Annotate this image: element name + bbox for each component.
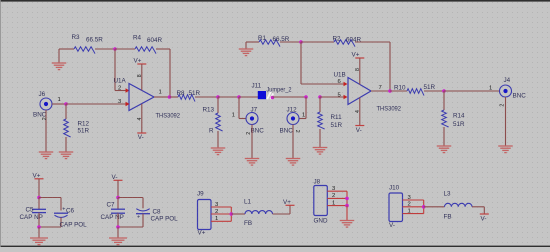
svg-text:R4: R4 — [133, 35, 142, 42]
svg-text:CAP NP: CAP NP — [101, 214, 124, 221]
svg-text:J7: J7 — [251, 107, 258, 114]
svg-text:4: 4 — [355, 110, 361, 113]
svg-text:1: 1 — [302, 113, 305, 119]
svg-text:51R: 51R — [424, 84, 436, 91]
svg-text:4: 4 — [137, 118, 143, 121]
svg-text:1: 1 — [215, 216, 218, 222]
svg-text:8: 8 — [137, 74, 143, 77]
svg-text:FB: FB — [444, 213, 452, 220]
svg-text:R: R — [209, 128, 214, 135]
svg-text:2: 2 — [332, 193, 335, 199]
svg-text:51R: 51R — [453, 121, 465, 128]
svg-text:V+: V+ — [198, 229, 206, 236]
svg-text:604R: 604R — [147, 37, 163, 44]
svg-text:7: 7 — [379, 85, 382, 91]
svg-text:2: 2 — [499, 104, 505, 107]
svg-text:J9: J9 — [197, 191, 204, 198]
svg-text:R10: R10 — [394, 84, 406, 91]
svg-text:R8: R8 — [177, 90, 186, 97]
svg-text:51R: 51R — [78, 128, 90, 135]
svg-text:1: 1 — [489, 85, 492, 91]
svg-text:C6: C6 — [66, 207, 75, 214]
svg-text:R1: R1 — [258, 35, 267, 42]
svg-text:BNC: BNC — [513, 92, 527, 99]
svg-text:J4: J4 — [504, 77, 511, 84]
svg-text:J8: J8 — [314, 179, 321, 186]
svg-text:R12: R12 — [78, 121, 90, 128]
svg-text:C8: C8 — [153, 208, 162, 215]
svg-text:2: 2 — [42, 117, 48, 120]
svg-text:2: 2 — [408, 202, 411, 208]
svg-text:CAP POL: CAP POL — [60, 222, 88, 229]
svg-text:THS3092: THS3092 — [156, 113, 181, 120]
svg-text:66.5R: 66.5R — [273, 36, 290, 43]
svg-text:V-: V- — [356, 127, 362, 134]
svg-text:V-: V- — [138, 134, 144, 141]
svg-text:FB: FB — [244, 220, 252, 227]
svg-text:R13: R13 — [203, 107, 215, 114]
svg-text:66.5R: 66.5R — [86, 37, 103, 44]
svg-text:2: 2 — [215, 209, 218, 215]
svg-text:J11: J11 — [252, 83, 262, 90]
svg-text:8: 8 — [355, 68, 361, 71]
svg-text:J12: J12 — [287, 107, 298, 114]
svg-text:2: 2 — [118, 86, 121, 92]
svg-text:R14: R14 — [453, 113, 465, 120]
svg-text:C7: C7 — [107, 202, 116, 209]
svg-text:U1B: U1B — [334, 72, 346, 79]
svg-text:V-: V- — [389, 222, 395, 229]
svg-text:L1: L1 — [244, 198, 252, 205]
svg-text:Jumper_2: Jumper_2 — [267, 87, 292, 94]
svg-text:R2: R2 — [333, 36, 342, 43]
svg-text:GND: GND — [314, 217, 328, 224]
svg-text:U1A: U1A — [114, 78, 127, 85]
svg-text:R3: R3 — [72, 34, 81, 41]
svg-text:C5: C5 — [26, 207, 35, 214]
svg-text:J10: J10 — [389, 185, 400, 192]
svg-text:V+: V+ — [283, 199, 291, 206]
svg-text:+: + — [62, 207, 65, 213]
svg-text:51R: 51R — [189, 90, 201, 97]
svg-text:BNC: BNC — [251, 128, 265, 135]
svg-text:1: 1 — [159, 90, 162, 96]
svg-text:2: 2 — [294, 130, 300, 133]
svg-text:1: 1 — [408, 208, 411, 214]
svg-text:+: + — [137, 214, 140, 220]
svg-text:604R: 604R — [346, 37, 362, 44]
svg-text:1: 1 — [232, 113, 235, 119]
svg-text:2: 2 — [246, 132, 252, 135]
svg-text:THS3092: THS3092 — [377, 106, 402, 113]
svg-text:R11: R11 — [331, 114, 343, 121]
svg-text:V-: V- — [481, 216, 487, 223]
svg-text:1: 1 — [332, 200, 335, 206]
svg-text:BNC: BNC — [280, 128, 294, 135]
svg-text:J6: J6 — [39, 91, 46, 98]
svg-text:L3: L3 — [444, 191, 452, 198]
svg-text:1: 1 — [58, 97, 61, 103]
svg-text:51R: 51R — [331, 122, 343, 129]
svg-text:CAP POL: CAP POL — [151, 216, 179, 223]
